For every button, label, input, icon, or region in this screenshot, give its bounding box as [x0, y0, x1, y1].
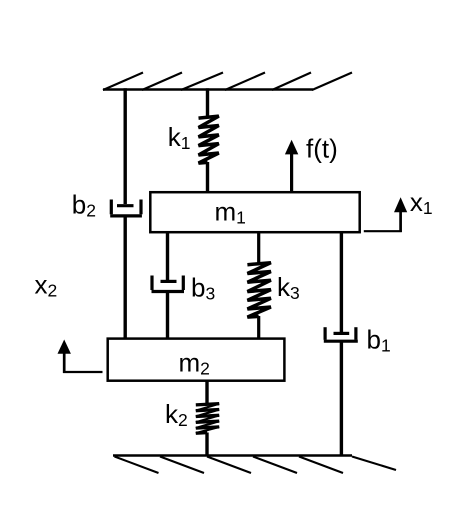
arrowhead x2: [58, 340, 71, 354]
displacement pointer x2: [63, 352, 102, 373]
rod: mass m2 to spring k2: [205, 380, 208, 405]
displacement pointer x1: [364, 208, 402, 232]
rod: damper b1 to ground: [340, 341, 343, 456]
rod: ceiling to damper b2 piston: [123, 88, 126, 204]
rod: spring k2 to ground: [205, 433, 208, 457]
rod: damper b3 to mass m2: [166, 292, 169, 340]
damper b1: [324, 327, 358, 341]
svg-text:b1: b1: [367, 325, 391, 356]
damper b3: [152, 276, 185, 292]
svg-text:x1: x1: [410, 187, 433, 218]
rod: mass m1 to spring k3: [257, 231, 260, 264]
svg-text:k2: k2: [165, 399, 188, 430]
svg-text:b3: b3: [191, 273, 215, 304]
ground fixed support line: [113, 454, 352, 456]
rod: mass m1 to damper b1 piston: [340, 231, 343, 332]
spring k2: [196, 404, 219, 434]
svg-text:k3: k3: [277, 272, 300, 303]
arrowhead x1: [394, 197, 407, 212]
ground hatching: [115, 457, 397, 474]
ceiling fixed support line: [103, 88, 313, 90]
rod: spring k3 to mass m2: [257, 316, 260, 340]
svg-text:f(t): f(t): [306, 134, 338, 164]
force arrow f(t) stem: [290, 152, 293, 193]
mass m1 box: [150, 192, 359, 232]
spring k1: [199, 116, 219, 163]
svg-text:k1: k1: [168, 122, 191, 153]
rod: mass m1 to damper b3 piston: [166, 231, 169, 280]
mass m2 box: [108, 339, 285, 381]
damper b2: [110, 200, 142, 216]
svg-text:x2: x2: [35, 269, 58, 300]
rod: damper b2 to mass m2: [123, 216, 126, 340]
rod: ceiling to spring k1: [206, 88, 209, 117]
ceiling hatching: [103, 73, 352, 91]
spring k3: [247, 263, 271, 317]
force arrow f(t) head: [285, 140, 298, 155]
svg-text:b2: b2: [72, 190, 96, 221]
rod: spring k1 to mass m1: [206, 162, 209, 194]
